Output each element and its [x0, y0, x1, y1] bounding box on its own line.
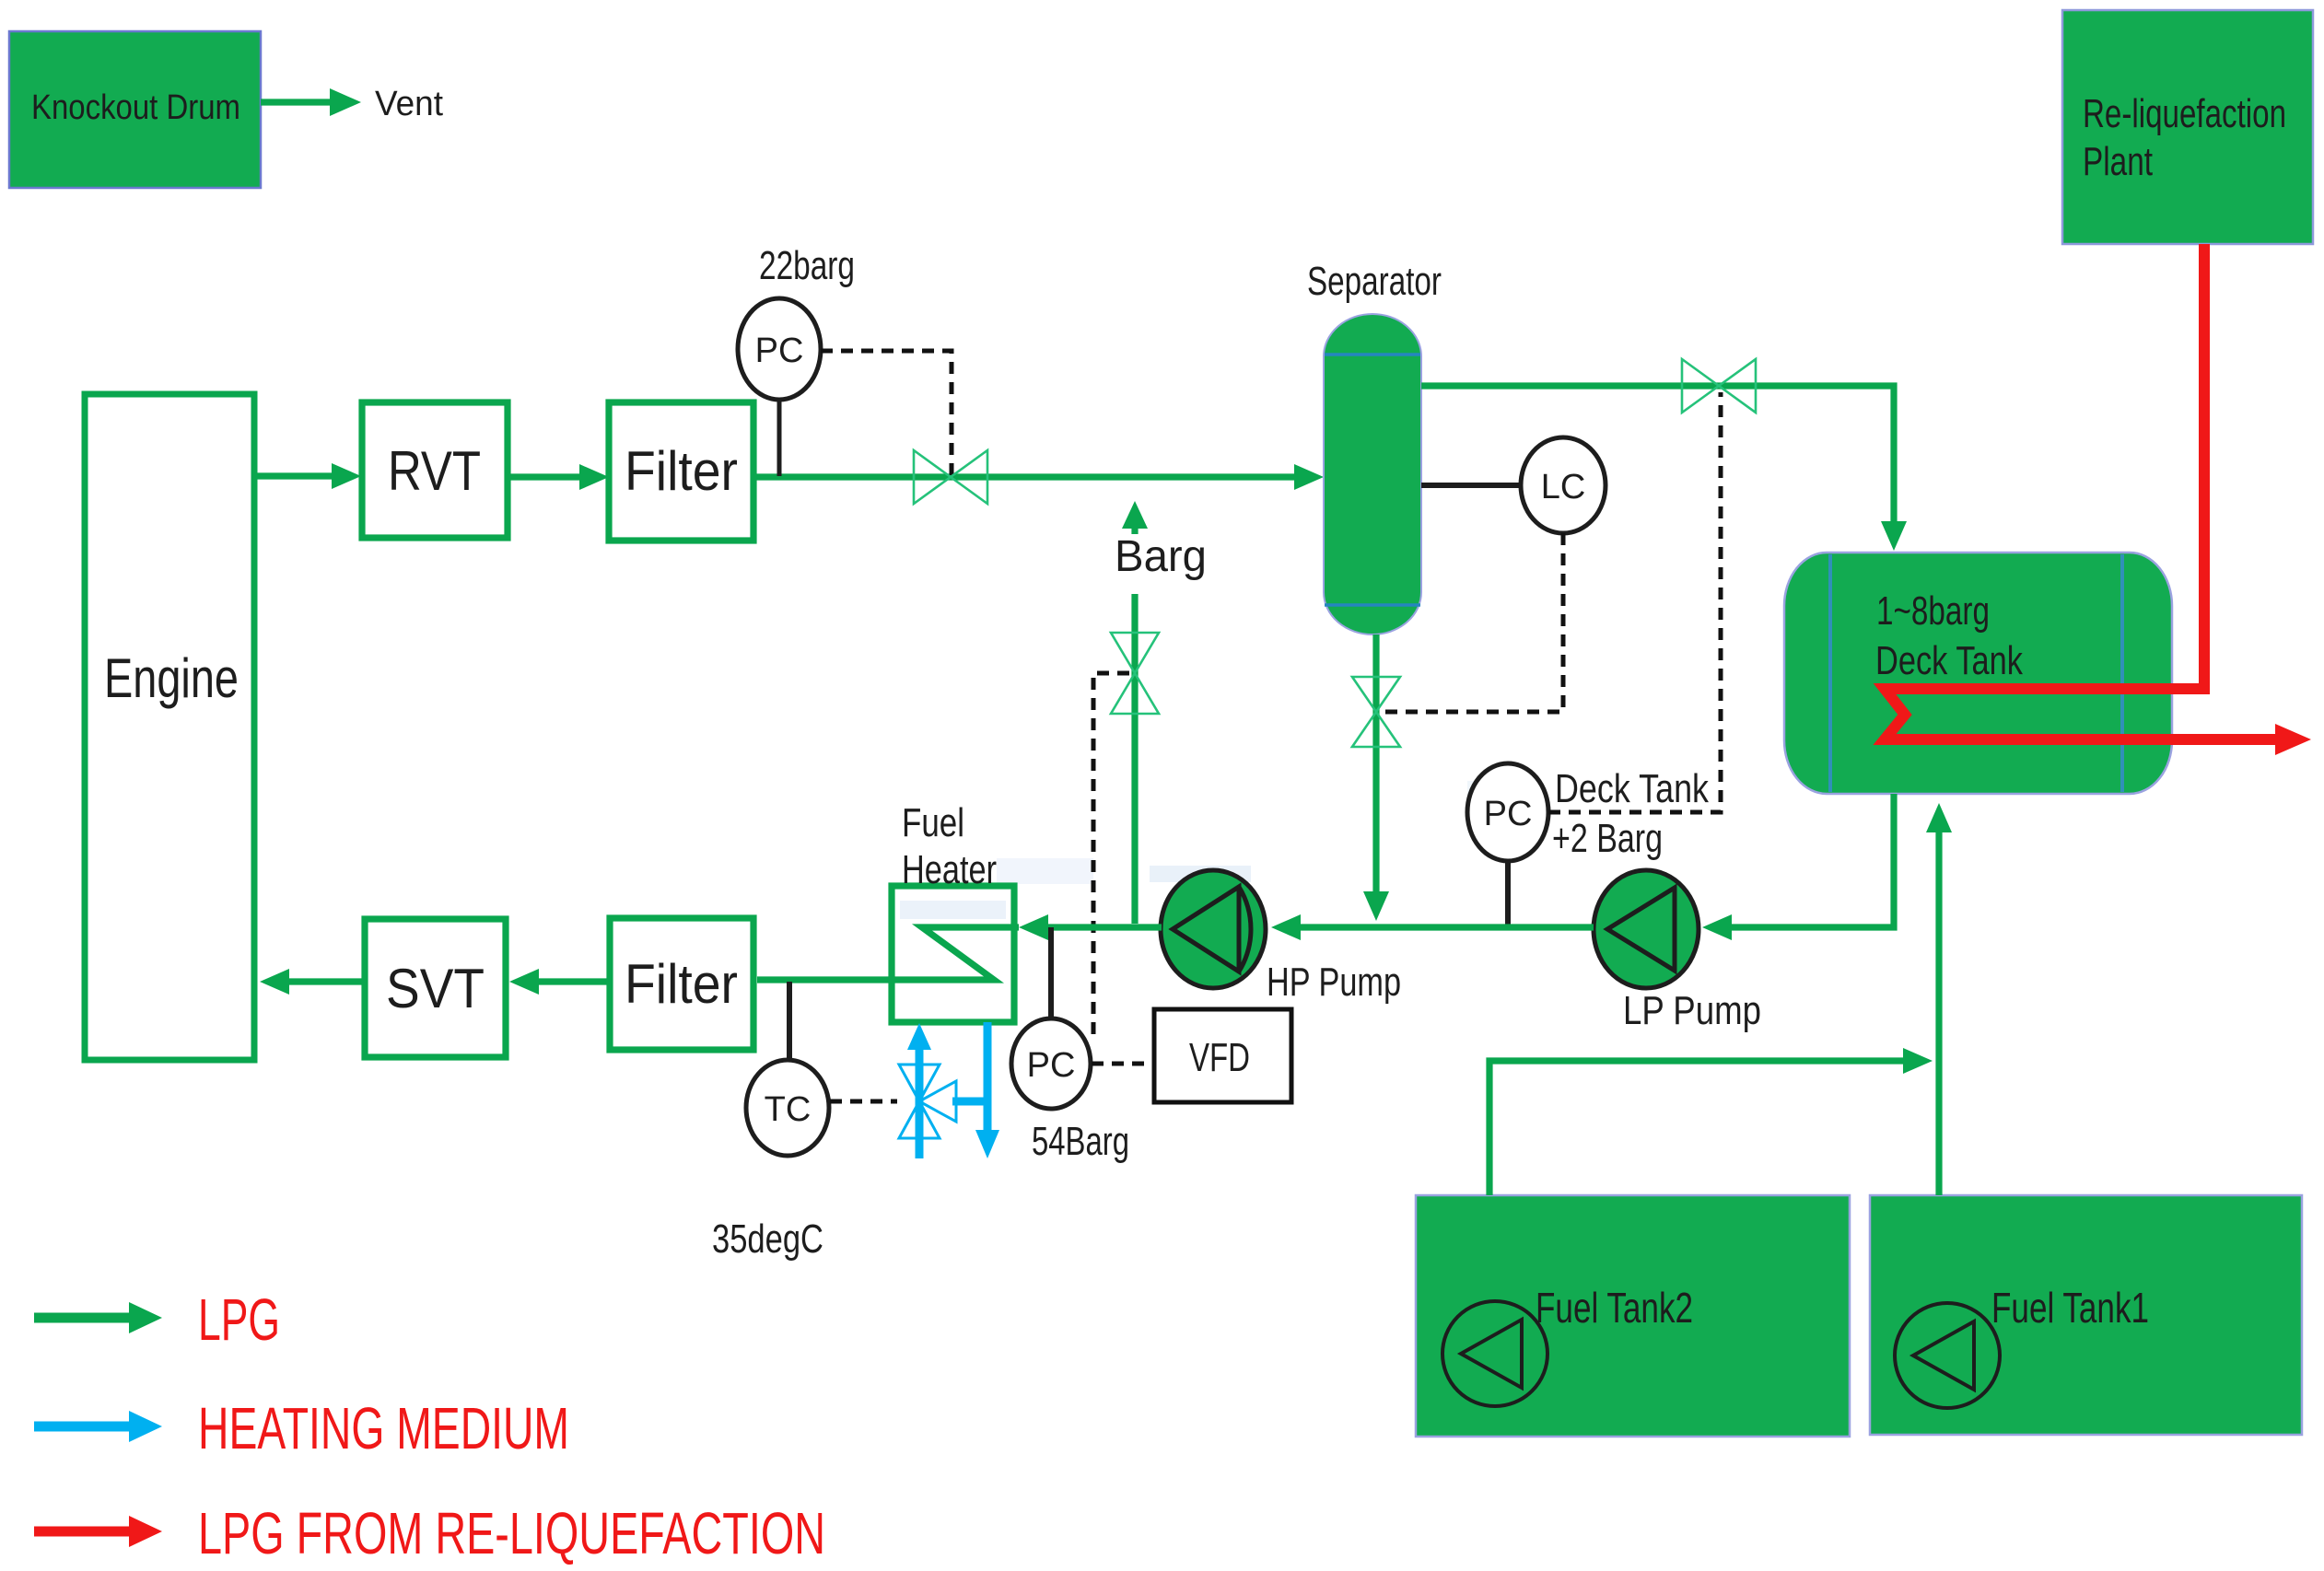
wire dashed PC54 to VFD — [1092, 1062, 1154, 1066]
fuel tank 1 box — [1870, 1195, 2302, 1435]
svg-text:Barg: Barg — [1115, 532, 1207, 581]
svg-text:Filter: Filter — [625, 440, 738, 502]
VFD box — [1154, 1009, 1291, 1102]
wire red LPG from re-liquefaction into deck tank — [1885, 244, 2311, 755]
svg-text:SVT: SVT — [386, 958, 485, 1019]
legend LPG arrow — [34, 1286, 280, 1353]
wire fuel tank 2 riser to transfer header — [1489, 1061, 1914, 1195]
svg-text:PC: PC — [1484, 795, 1533, 833]
wire HP pump discharge to fuel heater — [1030, 924, 1162, 930]
knockout drum box — [9, 31, 261, 188]
pump LP — [1594, 870, 1761, 1033]
instrument PC (deck tank +2 barg) — [1467, 763, 1548, 861]
re-liquefaction plant box — [2062, 10, 2313, 244]
wire heating medium return (blue down arrow) — [952, 1022, 999, 1158]
wire filter to separator — [753, 473, 1301, 480]
RVT box — [362, 402, 508, 538]
wire heater internal coil and outlet to filter — [757, 927, 1019, 980]
svg-text:LPG: LPG — [198, 1286, 280, 1353]
svg-text:Re-liquefaction: Re-liquefaction — [2083, 91, 2286, 136]
wire dashed LC to valve V3 — [1381, 533, 1563, 712]
svg-text:Deck Tank: Deck Tank — [1875, 638, 2024, 683]
pump HP — [1161, 870, 1401, 1005]
svg-text:PC: PC — [1027, 1046, 1076, 1085]
fuel tank 2 box — [1416, 1195, 1850, 1437]
svg-text:Engine: Engine — [104, 647, 239, 709]
legend LPG from re-liquefaction arrow — [34, 1500, 825, 1566]
wire dashed PC deck to valve V2 — [1548, 392, 1721, 812]
valve V1 on main gas line — [914, 450, 987, 504]
legend heating medium arrow — [34, 1395, 569, 1461]
svg-text:+2 Barg: +2 Barg — [1552, 816, 1663, 861]
svg-text:Separator: Separator — [1307, 259, 1442, 304]
svg-text:22barg: 22barg — [759, 243, 855, 288]
svg-text:TC: TC — [765, 1090, 812, 1129]
instrument LC — [1521, 437, 1606, 533]
separator vessel — [1307, 259, 1442, 634]
svg-text:Fuel: Fuel — [902, 800, 964, 845]
instrument tap to PC 54Barg — [1048, 927, 1054, 1020]
instrument PC (22barg) — [738, 298, 821, 400]
wire SVT to engine — [273, 978, 365, 984]
filter box (bottom) — [610, 918, 753, 1050]
ghost highlight rects (faint artifacts in source) — [1150, 866, 1251, 882]
svg-text:Knockout Drum: Knockout Drum — [31, 88, 240, 127]
wire fuel tank 1 riser up to deck tank — [1926, 803, 1952, 1195]
svg-text:Deck Tank: Deck Tank — [1555, 766, 1710, 811]
wire heating medium supply (blue up arrow into heater) — [907, 1023, 931, 1158]
wire engine to RVT — [254, 463, 361, 489]
wire instrument tap separator to LC — [1421, 483, 1521, 488]
valve V3 on separator drain — [1352, 677, 1400, 747]
wire LP pump to HP pump — [1282, 924, 1594, 930]
wire separator drain down to pump suction — [1363, 634, 1389, 921]
filter box (top) — [609, 402, 753, 541]
engine box — [85, 394, 254, 1060]
wire knockout drum to vent — [261, 88, 361, 116]
svg-text:Fuel Tank2: Fuel Tank2 — [1536, 1284, 1693, 1332]
heating medium valve (3-way, blue) — [899, 1065, 956, 1138]
fuel heater box — [892, 800, 1014, 1022]
wire dashed PC to valve V1 — [821, 351, 952, 478]
wire filter to SVT — [524, 978, 610, 984]
valve V2 on separator outlet — [1682, 359, 1756, 413]
svg-text:35degC: 35degC — [712, 1216, 823, 1262]
svg-text:Plant: Plant — [2083, 139, 2153, 184]
deck tank vessel — [1784, 553, 2172, 794]
wire instrument tap PC deck to suction line — [1505, 861, 1511, 925]
svg-text:Fuel Tank1: Fuel Tank1 — [1991, 1284, 2149, 1332]
svg-text:HP Pump: HP Pump — [1267, 960, 1401, 1005]
wire deck tank bottom to LP pump suction — [1713, 794, 1894, 927]
instrument tap to TC — [787, 982, 792, 1061]
svg-text:54Barg: 54Barg — [1032, 1119, 1129, 1164]
svg-text:Heater: Heater — [902, 847, 997, 892]
svg-text:LC: LC — [1541, 468, 1586, 506]
svg-text:Filter: Filter — [625, 953, 738, 1015]
svg-text:LPG FROM RE-LIQUEFACTION: LPG FROM RE-LIQUEFACTION — [198, 1500, 825, 1566]
wire RVT to Filter — [508, 464, 609, 490]
valve V4 on Barg line — [1111, 633, 1159, 714]
svg-text:HEATING MEDIUM: HEATING MEDIUM — [198, 1395, 569, 1461]
SVT box — [365, 919, 506, 1057]
svg-text:PC: PC — [755, 332, 804, 370]
instrument PC (54Barg) — [1011, 1018, 1091, 1109]
wire Barg vent line with up arrow — [1122, 501, 1148, 924]
svg-text:LP Pump: LP Pump — [1623, 988, 1761, 1033]
wire dashed TC to heating valve — [830, 1100, 897, 1104]
wire separator top outlet to deck tank — [1421, 386, 1907, 551]
instrument TC — [746, 1060, 829, 1156]
wire instrument tap to PC 22barg — [777, 400, 782, 476]
svg-text:RVT: RVT — [388, 440, 481, 502]
wire dashed V4 to PC 54Barg — [1093, 673, 1129, 1039]
svg-text:VFD: VFD — [1189, 1035, 1250, 1080]
svg-text:1~8barg: 1~8barg — [1876, 588, 1990, 634]
svg-text:Vent: Vent — [375, 85, 443, 123]
